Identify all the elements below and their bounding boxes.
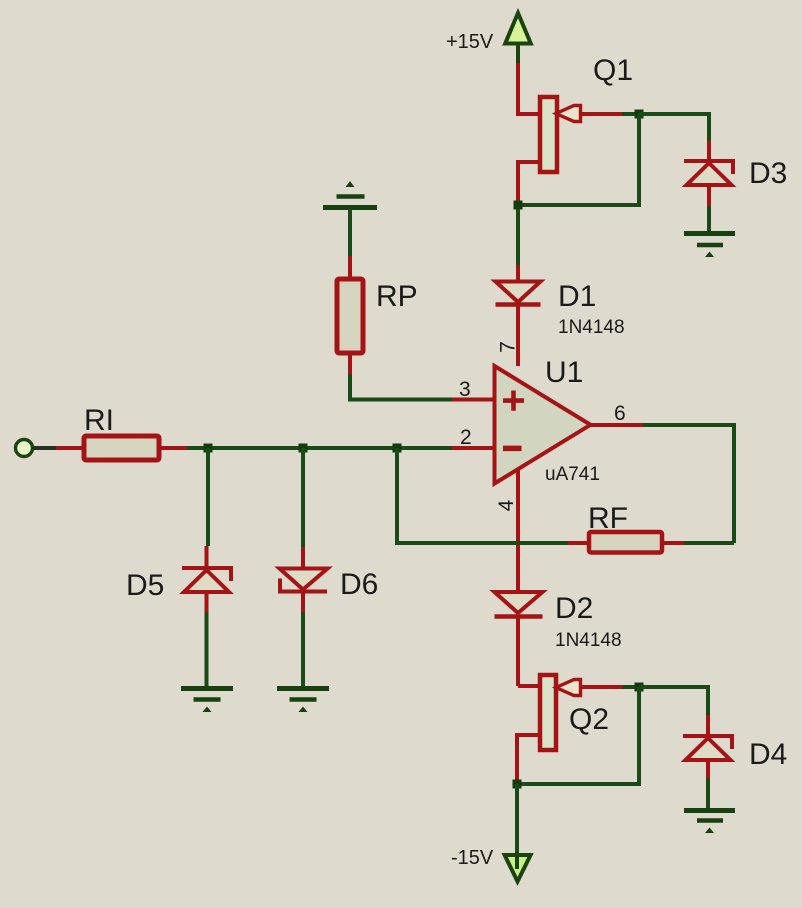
wire node to D3 — [639, 114, 709, 141]
inverted ground (RP top) — [323, 181, 377, 208]
svg-text:2: 2 — [460, 426, 472, 449]
wire pin4 to D2 (red) — [516, 468, 520, 592]
wire feedback node down and right — [397, 448, 568, 543]
power -15V symbol — [505, 852, 531, 882]
svg-text:D6: D6 — [340, 568, 378, 601]
wire node down to Q1 source node — [518, 114, 639, 205]
svg-text:U1: U1 — [545, 356, 583, 389]
wire Q2 gate to node — [622, 685, 639, 689]
diode D6 (zener, cathode down) — [280, 547, 328, 612]
wire RI to pin2 — [187, 446, 452, 450]
wire node to D1 — [516, 209, 520, 265]
resistor RI — [56, 436, 187, 460]
svg-text:D3: D3 — [749, 157, 787, 190]
wire RP to pin3 — [350, 374, 452, 400]
svg-text:4: 4 — [495, 499, 518, 511]
diode D5 (zener) — [182, 546, 231, 612]
svg-text:1N4148: 1N4148 — [555, 630, 622, 651]
ground (D6) — [277, 689, 329, 713]
svg-text:7: 7 — [497, 341, 520, 353]
svg-text:D5: D5 — [126, 569, 164, 602]
ground (D5) — [181, 689, 233, 713]
wire D4 to ground — [706, 778, 710, 809]
node Q1 source junction — [514, 201, 523, 210]
wire node to D6 — [301, 448, 305, 547]
ground (D3) — [684, 234, 735, 258]
wire ground to RP — [348, 209, 352, 256]
wire D6 to ground — [301, 612, 305, 687]
wire +15V to Q1 drain (red pin) — [518, 63, 540, 114]
diode D4 (zener) — [683, 715, 732, 778]
wire Q1 gate to node — [622, 112, 639, 116]
svg-text:D2: D2 — [555, 592, 593, 625]
node feedback junction — [393, 444, 402, 453]
wire output down — [643, 425, 734, 543]
transistor Q1 — [518, 97, 622, 203]
resistor RP — [337, 256, 363, 374]
wire terminal to RI — [33, 446, 56, 450]
svg-text:1N4148: 1N4148 — [558, 317, 625, 338]
op-amp U1 — [495, 366, 591, 484]
wire pin3 red stub — [452, 398, 495, 402]
svg-text:uA741: uA741 — [545, 464, 600, 485]
wire RF to output vertical — [684, 541, 734, 545]
power +15V symbol — [505, 13, 531, 63]
svg-text:Q1: Q1 — [593, 54, 633, 87]
wire node down to source node — [517, 687, 639, 784]
svg-text:-15V: -15V — [451, 847, 494, 869]
wire pin2 red stub — [452, 446, 495, 450]
input terminal — [16, 440, 33, 457]
transistor Q2 — [517, 675, 622, 780]
diode D3 (zener) — [684, 141, 733, 206]
node D6 junction — [299, 444, 308, 453]
wire node to D5 — [206, 448, 210, 546]
svg-text:Q2: Q2 — [569, 703, 609, 736]
wire D5 to ground — [205, 612, 209, 687]
wire D3 to ground — [707, 206, 711, 232]
svg-text:RI: RI — [84, 404, 114, 437]
ground (D4) — [684, 811, 735, 834]
diode D2 — [495, 592, 543, 686]
wire source node to -15V — [515, 784, 519, 856]
svg-text:D4: D4 — [749, 738, 787, 771]
node Q2 source junction — [513, 780, 522, 789]
diode D1 — [496, 265, 541, 366]
svg-text:6: 6 — [614, 402, 626, 425]
wire pin6 red stub — [589, 423, 643, 427]
svg-text:RP: RP — [376, 280, 418, 313]
svg-text:RF: RF — [588, 502, 628, 535]
node gate Q1 junction — [635, 110, 644, 119]
node D5 junction — [204, 444, 213, 453]
resistor RF — [568, 532, 684, 553]
wire node to D4 — [639, 687, 708, 715]
svg-text:+15V: +15V — [446, 31, 494, 53]
svg-text:D1: D1 — [558, 280, 596, 313]
node gate Q2 junction — [635, 683, 644, 692]
